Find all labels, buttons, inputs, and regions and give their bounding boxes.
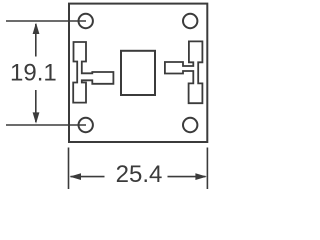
svg-text:25.4: 25.4 — [116, 161, 163, 188]
svg-text:19.1: 19.1 — [10, 59, 57, 86]
